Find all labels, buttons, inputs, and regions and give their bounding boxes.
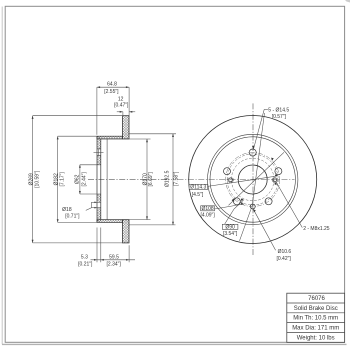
dim line Ø192.5 (172, 134, 174, 225)
dim 12 flange thickness (117, 111, 123, 113)
arrowheads (32, 86, 174, 260)
plate face outlines (96, 136, 98, 222)
Ø18 leader (86, 208, 92, 211)
svg-text:[0.71"]: [0.71"] (65, 213, 80, 219)
outer circle Ø269 (189, 116, 317, 244)
svg-text:Ø192.5: Ø192.5 (165, 170, 171, 187)
stud hole upper right (275, 168, 282, 175)
circle Ø192.5 (208, 134, 298, 224)
front view labels (268, 108, 330, 262)
friction ring top (section hatch) (123, 116, 129, 139)
svg-text:76076: 76076 (308, 296, 325, 302)
svg-text:[0.47"]: [0.47"] (114, 103, 129, 109)
dashed circle Ø90 (231, 158, 274, 201)
diameter leader Ø114.3 (diagonal) (229, 152, 285, 205)
dim line Ø62 bore (79, 165, 81, 194)
dashed circle Ø108 (227, 154, 278, 205)
stud hole lower left (233, 198, 240, 205)
svg-text:Solid Brake Disc: Solid Brake Disc (294, 306, 338, 312)
svg-text:[2.55"]: [2.55"] (104, 89, 119, 95)
svg-text:[0.57"]: [0.57"] (272, 114, 287, 120)
stud hole edges (97, 148, 101, 150)
svg-text:[7.58"]: [7.58"] (174, 171, 180, 186)
stud hole upper left (224, 168, 231, 175)
leader from Ø90 box (225, 200, 244, 225)
svg-text:2 - M8x1.25: 2 - M8x1.25 (303, 226, 330, 232)
leader to outer circle lower left (240, 209, 251, 241)
svg-text:[7.17"]: [7.17"] (59, 172, 65, 187)
svg-text:Ø18: Ø18 (62, 207, 72, 213)
circle Ø182 (210, 137, 295, 222)
stud hole lower right (265, 198, 272, 205)
svg-text:Ø10.6: Ø10.6 (278, 249, 292, 255)
vertical centerline (252, 103, 254, 255)
svg-text:64.8: 64.8 (107, 82, 117, 88)
svg-text:Weight: 10 lbs: Weight: 10 lbs (297, 335, 335, 341)
svg-text:[2.34"]: [2.34"] (107, 262, 122, 268)
page shadow left (1, 7, 3, 345)
svg-text:Max Dia: 171 mm: Max Dia: 171 mm (292, 326, 339, 332)
svg-text:5 - Ø14.5: 5 - Ø14.5 (268, 108, 289, 114)
dim line Ø269 (32, 116, 34, 243)
page shadow bottom (2, 343, 347, 345)
boxed label Ø90 (222, 224, 238, 237)
front view (178, 103, 317, 255)
horizontal centerline (178, 179, 295, 181)
drum wall bottom (section hatch) (97, 220, 123, 223)
mounting plate (section hatch, with bore and hole gaps) (97, 136, 101, 222)
svg-text:[4.5"]: [4.5"] (192, 192, 204, 198)
friction ring bottom (section hatch) (123, 220, 129, 243)
front view arrowheads (232, 146, 278, 212)
svg-text:12: 12 (118, 96, 124, 102)
bottom dims 5.3 / 59.5 (91, 259, 136, 261)
leader Ø10.6 to text (253, 209, 275, 250)
M8 hole left (229, 178, 233, 182)
svg-text:[2.44"]: [2.44"] (81, 172, 87, 187)
leader 5-Ø14.5 (254, 109, 265, 149)
svg-text:Ø90: Ø90 (225, 224, 235, 230)
svg-text:[3.54"]: [3.54"] (223, 231, 238, 237)
svg-text:[10.59"]: [10.59"] (34, 170, 40, 188)
stud hole in plate (top) centerline cross (94, 151, 104, 153)
dim 64.8 total width (97, 86, 129, 88)
svg-text:Min Th: 10.5 mm: Min Th: 10.5 mm (293, 316, 338, 322)
svg-text:59.5: 59.5 (109, 255, 119, 261)
boxed label Ø114.3 (189, 184, 208, 197)
svg-text:Ø114.3: Ø114.3 (190, 185, 206, 191)
svg-text:[6.69"]: [6.69"] (148, 172, 154, 187)
bolt circle Ø114.3 dash-dot (226, 153, 280, 207)
M8 hole right (273, 178, 277, 182)
svg-text:Ø62: Ø62 (74, 174, 80, 184)
leader 2-M8x1.25 (276, 182, 302, 228)
set screw hole Ø10.6 bottom (250, 204, 255, 209)
svg-text:5.3: 5.3 (81, 255, 88, 261)
leader from Ø114.3 box (208, 176, 277, 186)
section view centerline (88, 178, 172, 180)
shared ext line right (128, 87, 130, 116)
dim line Ø182 (57, 136, 59, 222)
title block (287, 293, 345, 342)
svg-text:[0.21"]: [0.21"] (78, 262, 93, 268)
boxed label Ø108 (200, 206, 215, 219)
svg-text:[4.09"]: [4.09"] (200, 213, 215, 219)
Ø18 hole edges + bracket (91, 201, 100, 203)
dimension texts (section view) (29, 82, 180, 268)
svg-text:Ø108: Ø108 (201, 206, 213, 212)
long leader through set screw hole (252, 113, 265, 209)
inner drum edge line (106, 139, 108, 220)
drum wall top (section hatch) (97, 136, 123, 139)
svg-text:[0.42"]: [0.42"] (277, 256, 292, 262)
center bore Ø62 (238, 165, 267, 194)
dim line Ø170 drum inner (146, 139, 148, 220)
corner artifact top right (345, 0, 350, 3)
stud hole top (249, 149, 256, 156)
leader from Ø108 box (215, 204, 244, 209)
